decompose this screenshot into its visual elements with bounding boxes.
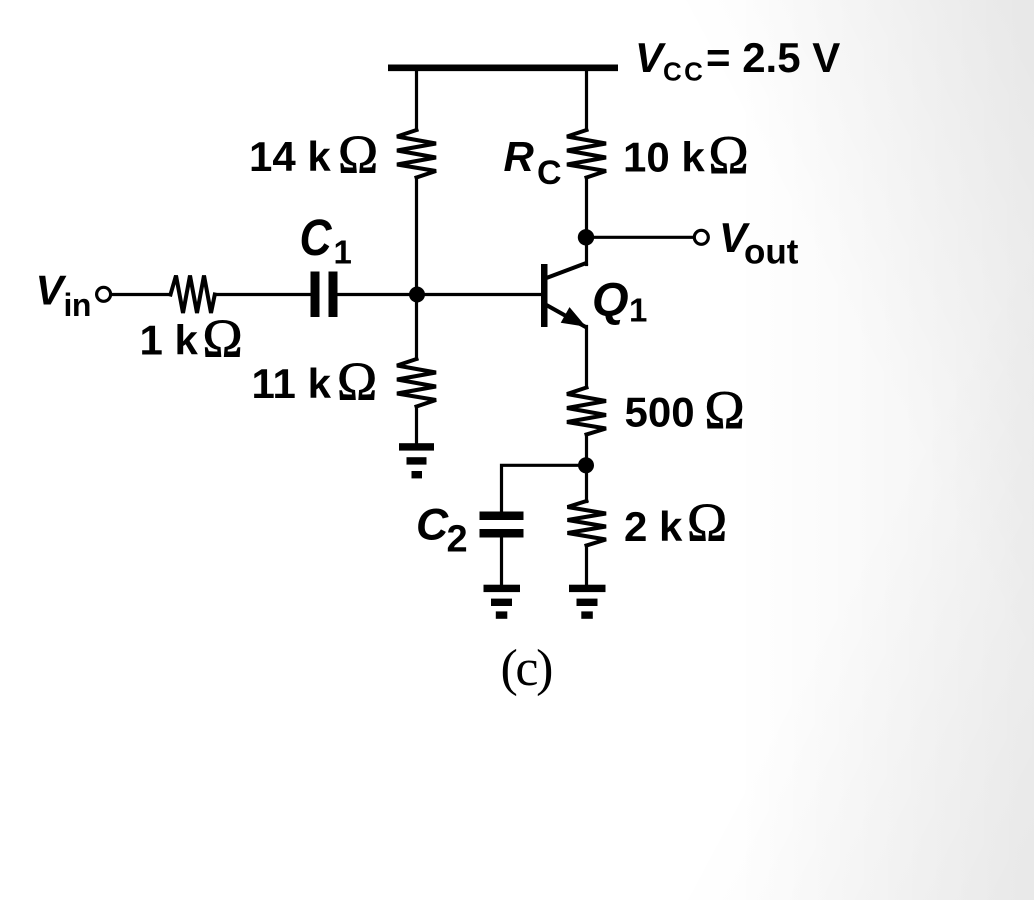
wire C1 to base <box>338 293 542 296</box>
svg-text:Ω: Ω <box>687 493 727 553</box>
transistor Q1 base bar <box>541 264 548 327</box>
svg-text:(c): (c) <box>501 640 553 697</box>
wire 2k to ground <box>585 546 588 586</box>
svg-text:C: C <box>416 501 449 550</box>
capacitor C2 bottom plate <box>480 529 524 538</box>
resistor 11k zigzag <box>397 359 436 407</box>
svg-text:CC: CC <box>663 56 705 86</box>
wire 10k to Vout node <box>585 178 588 238</box>
resistor 14k zigzag <box>397 130 436 178</box>
svg-text:14 k: 14 k <box>249 133 331 180</box>
resistor 2k (emitter) zigzag <box>568 501 607 546</box>
svg-text:Ω: Ω <box>203 309 243 369</box>
wire collector vertical <box>585 237 588 264</box>
svg-text:1: 1 <box>629 292 647 329</box>
capacitor C1 right plate <box>329 272 338 318</box>
svg-text:1 k: 1 k <box>140 317 199 364</box>
wire input terminal to 1k <box>111 293 171 296</box>
svg-text:in: in <box>64 287 91 323</box>
svg-text:Ω: Ω <box>705 380 745 440</box>
svg-text:out: out <box>744 233 799 272</box>
wire rail to 14k <box>415 71 418 130</box>
capacitor C1 left plate <box>311 272 320 318</box>
svg-text:V: V <box>635 34 666 81</box>
svg-text:= 2.5 V: = 2.5 V <box>706 34 840 81</box>
svg-text:Ω: Ω <box>338 125 378 185</box>
resistor 500 Ohm (emitter degeneration) zigzag <box>567 388 606 435</box>
terminal Vin <box>97 287 111 301</box>
svg-text:500: 500 <box>625 389 695 436</box>
wire rail to 10k <box>585 71 588 130</box>
wire emitter node to C2 <box>502 465 587 511</box>
svg-text:10 k: 10 k <box>623 134 705 181</box>
svg-text:Q: Q <box>592 273 629 326</box>
wire emitter node down to 2k <box>585 465 588 501</box>
svg-text:Ω: Ω <box>709 125 749 185</box>
wire 500 to emitter node <box>585 435 588 466</box>
VCC rail <box>388 65 618 72</box>
svg-text:R: R <box>504 133 535 180</box>
svg-text:Ω: Ω <box>337 352 377 412</box>
transistor Q1 collector slant <box>544 261 588 281</box>
svg-text:1: 1 <box>334 234 352 271</box>
svg-text:11 k: 11 k <box>252 360 332 407</box>
ground symbol under 2k <box>569 585 606 592</box>
capacitor C2 top plate <box>480 512 524 521</box>
node emitter junction <box>578 457 594 473</box>
svg-text:V: V <box>36 267 67 314</box>
svg-text:2 k: 2 k <box>624 503 683 550</box>
wire 1k to C1 <box>215 293 311 296</box>
wire 14k to base node <box>415 178 418 295</box>
wire Vout node to terminal <box>587 236 695 239</box>
node Vout junction <box>578 229 594 245</box>
resistor RC 10k zigzag <box>567 130 606 178</box>
svg-text:C: C <box>300 210 333 267</box>
wire base node down to 11k <box>415 295 418 360</box>
ground symbol under C2 <box>484 585 521 592</box>
wire C2 to ground <box>500 538 503 586</box>
terminal Vout <box>694 230 708 244</box>
wire 11k to ground <box>415 407 418 445</box>
ground symbol under 11k <box>399 443 434 450</box>
resistor 1k (source) zigzag <box>171 276 215 314</box>
transistor Q1 emitter arrow <box>561 307 586 327</box>
svg-text:C: C <box>537 154 562 192</box>
wire emitter down to 500 <box>585 327 588 388</box>
transistor Q1 emitter slant <box>545 303 588 330</box>
svg-text:2: 2 <box>447 519 468 561</box>
node base junction <box>409 287 425 303</box>
